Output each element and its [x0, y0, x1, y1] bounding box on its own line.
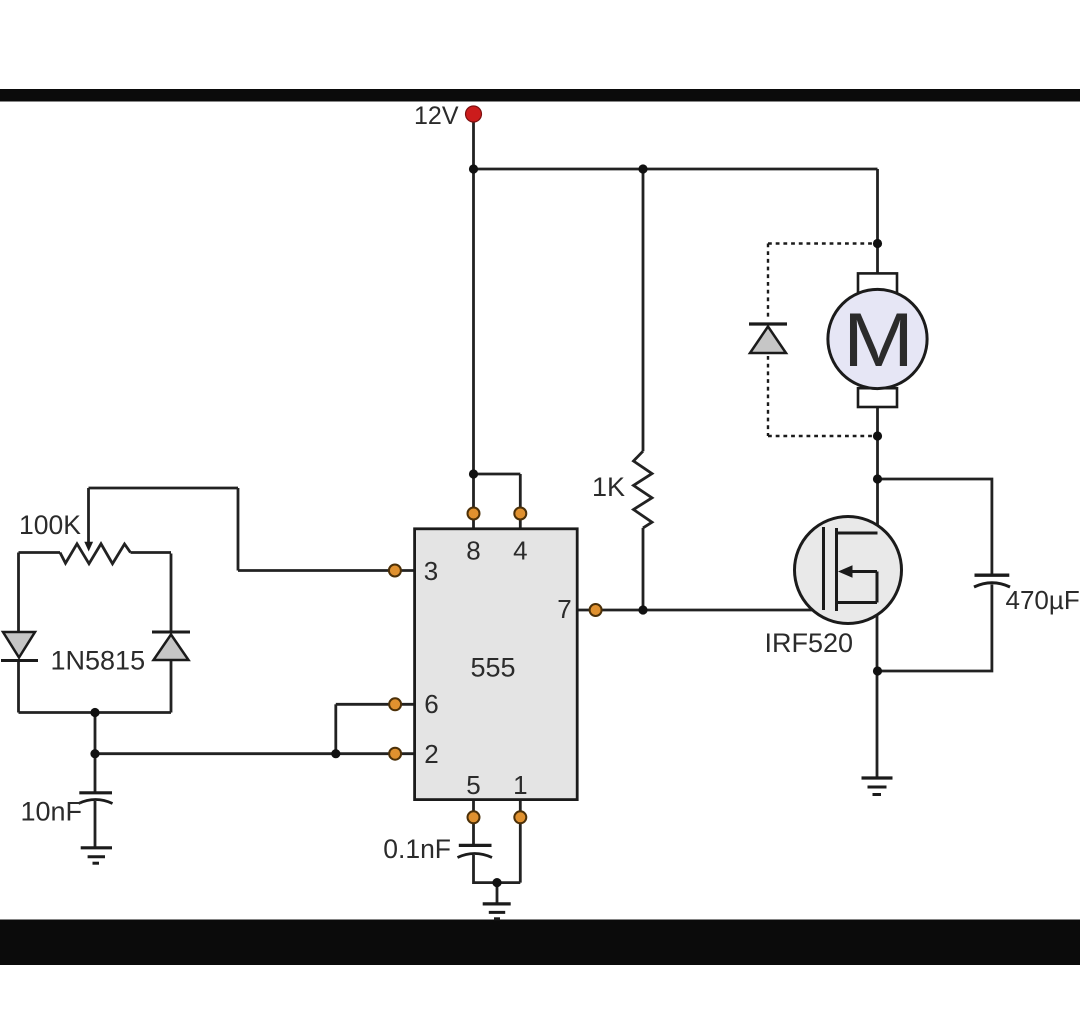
pin terminal pin3 [389, 565, 401, 577]
wire loop to pin2 node [94, 713, 97, 754]
junction dot diode loop bottom [90, 708, 99, 717]
pin terminal pin5 [468, 811, 480, 823]
wire pin1 drop [519, 800, 522, 883]
pin terminal pin2 [389, 748, 401, 760]
capacitor C1 10nF top plate [79, 791, 112, 794]
wire 1K top lead [642, 169, 645, 451]
svg-text:2: 2 [424, 739, 438, 769]
junction dot pin6 riser [331, 749, 340, 758]
motor M1 top terminal [858, 273, 897, 293]
capacitor C2 0.1nF top plate [459, 844, 492, 847]
wire 10nF drop [94, 754, 97, 793]
wire pin5 drop to cap [472, 800, 475, 846]
pin terminal pin4 [514, 508, 526, 520]
svg-text:8: 8 [466, 536, 480, 566]
wire dashed left upper [767, 244, 769, 321]
svg-text:100K: 100K [19, 510, 81, 540]
wire rail to pin8/4 junction [472, 169, 475, 474]
wire D2 to bottom [170, 660, 173, 713]
wire 12V drop [472, 114, 475, 169]
ground GND1 (mosfet source) [862, 778, 893, 795]
mosfet Q1 drain stub [837, 532, 878, 535]
pin terminal pin1 [514, 811, 526, 823]
wire pin8 drop [472, 474, 475, 529]
IC U1 555 body [415, 529, 578, 800]
wire pin3 [238, 569, 415, 572]
wire pin8-pin4 bridge [474, 473, 521, 476]
svg-text:5: 5 [466, 770, 480, 800]
diode D3 flyback cathode bar [749, 322, 787, 325]
svg-text:3: 3 [424, 556, 438, 586]
wire main top rail [474, 168, 878, 171]
wire left leg down to diode D1 [17, 553, 20, 633]
dashed flyback loop [768, 244, 872, 437]
wire pin6 [336, 703, 415, 706]
svg-text:10nF: 10nF [20, 797, 82, 827]
mosfet Q1 body stub [848, 570, 877, 573]
svg-text:4: 4 [513, 536, 527, 566]
junction dot 10nF node [90, 749, 99, 758]
wire 1K bottom lead [642, 528, 645, 610]
svg-text:0.1nF: 0.1nF [383, 834, 451, 864]
wire 0.1nF bottom lead [474, 855, 521, 883]
mosfet Q1 body arrow [838, 565, 853, 577]
wire motor feed [876, 169, 879, 274]
ground GND3 (0.1nF) [483, 904, 511, 919]
svg-text:470µF: 470µF [1006, 585, 1080, 615]
wire pin4 drop [519, 474, 522, 529]
pin terminal pin7 [590, 604, 602, 616]
bottom black bar [0, 920, 1080, 966]
junction dot dashed top [873, 239, 882, 248]
junction dot rail-left [469, 164, 478, 173]
wire pot left lead [19, 551, 61, 554]
junction dot 1K-pin7 [638, 605, 647, 614]
wire ground stub bottom [496, 883, 499, 903]
diode D3 flyback triangle [750, 327, 786, 354]
mosfet Q1 inner vertical [876, 572, 879, 603]
wire cap 470uF top branch [878, 479, 992, 575]
wire dashed top [768, 242, 872, 244]
mosfet Q1 source stub [837, 601, 878, 604]
resistor R2 100K zigzag [60, 544, 131, 564]
mosfet Q1 channel bar [835, 528, 838, 611]
capacitor C3 470uF top plate [975, 574, 1010, 577]
wire bottom loop [19, 711, 172, 714]
svg-text:12V: 12V [414, 102, 459, 130]
diode D2 1N5815 right cathode bar [152, 631, 190, 634]
wire D1 to bottom [17, 661, 20, 713]
svg-text:555: 555 [470, 653, 515, 683]
wire pot link to pin3 [237, 488, 240, 571]
wire pot wiper [87, 488, 90, 543]
svg-text:M: M [843, 298, 914, 383]
capacitor C1 bottom plate [79, 800, 113, 804]
node 12V red terminal [466, 106, 482, 122]
mosfet Q1 body [795, 517, 902, 624]
pot wiper arrow [84, 542, 93, 552]
wire dashed left lower [767, 356, 769, 436]
wire mosfet source to ground [876, 603, 879, 779]
mosfet Q1 gate bar [822, 527, 825, 610]
motor M1 body [828, 289, 927, 388]
wire pin7 to gate [577, 609, 824, 612]
wire pin6 riser [334, 704, 337, 753]
svg-text:IRF520: IRF520 [765, 628, 854, 658]
junction dot cap top branch [873, 474, 882, 483]
pin terminal pin6 [389, 698, 401, 710]
svg-text:1N5815: 1N5815 [51, 646, 146, 676]
top black bar [0, 89, 1080, 102]
diode D2 triangle [154, 635, 189, 661]
resistor R1 1K zigzag [634, 451, 653, 528]
wire dashed bottom [768, 435, 872, 437]
diode D1 cathode bar [1, 659, 38, 662]
capacitor C2 bottom plate [458, 854, 493, 858]
junction dot pin8/4 split [469, 469, 478, 478]
pin terminal pin8 [468, 508, 480, 520]
wire pot top link [89, 487, 239, 490]
diode D1 1N5815 left triangle [3, 632, 35, 658]
svg-text:7: 7 [557, 594, 571, 624]
wire pot right lead [131, 551, 172, 554]
wire right leg to diode D2 [170, 554, 173, 633]
junction dot dashed bottom [873, 431, 882, 440]
svg-text:1: 1 [513, 770, 527, 800]
ground GND2 (10nF) [81, 848, 112, 863]
wire cap 470uF bottom branch [878, 585, 992, 672]
wire motor to mosfet drain [876, 405, 879, 533]
junction dot cap bottom branch [873, 666, 882, 675]
wire 10nF to ground [94, 801, 97, 848]
motor M1 bottom terminal [858, 388, 897, 407]
svg-text:6: 6 [424, 689, 438, 719]
capacitor C3 470uF bottom plate [974, 583, 1010, 587]
junction dot rail-1K [638, 164, 647, 173]
svg-text:1K: 1K [592, 472, 625, 502]
junction dot 0.1nF ground node [492, 878, 501, 887]
wire pin2 [95, 752, 415, 755]
